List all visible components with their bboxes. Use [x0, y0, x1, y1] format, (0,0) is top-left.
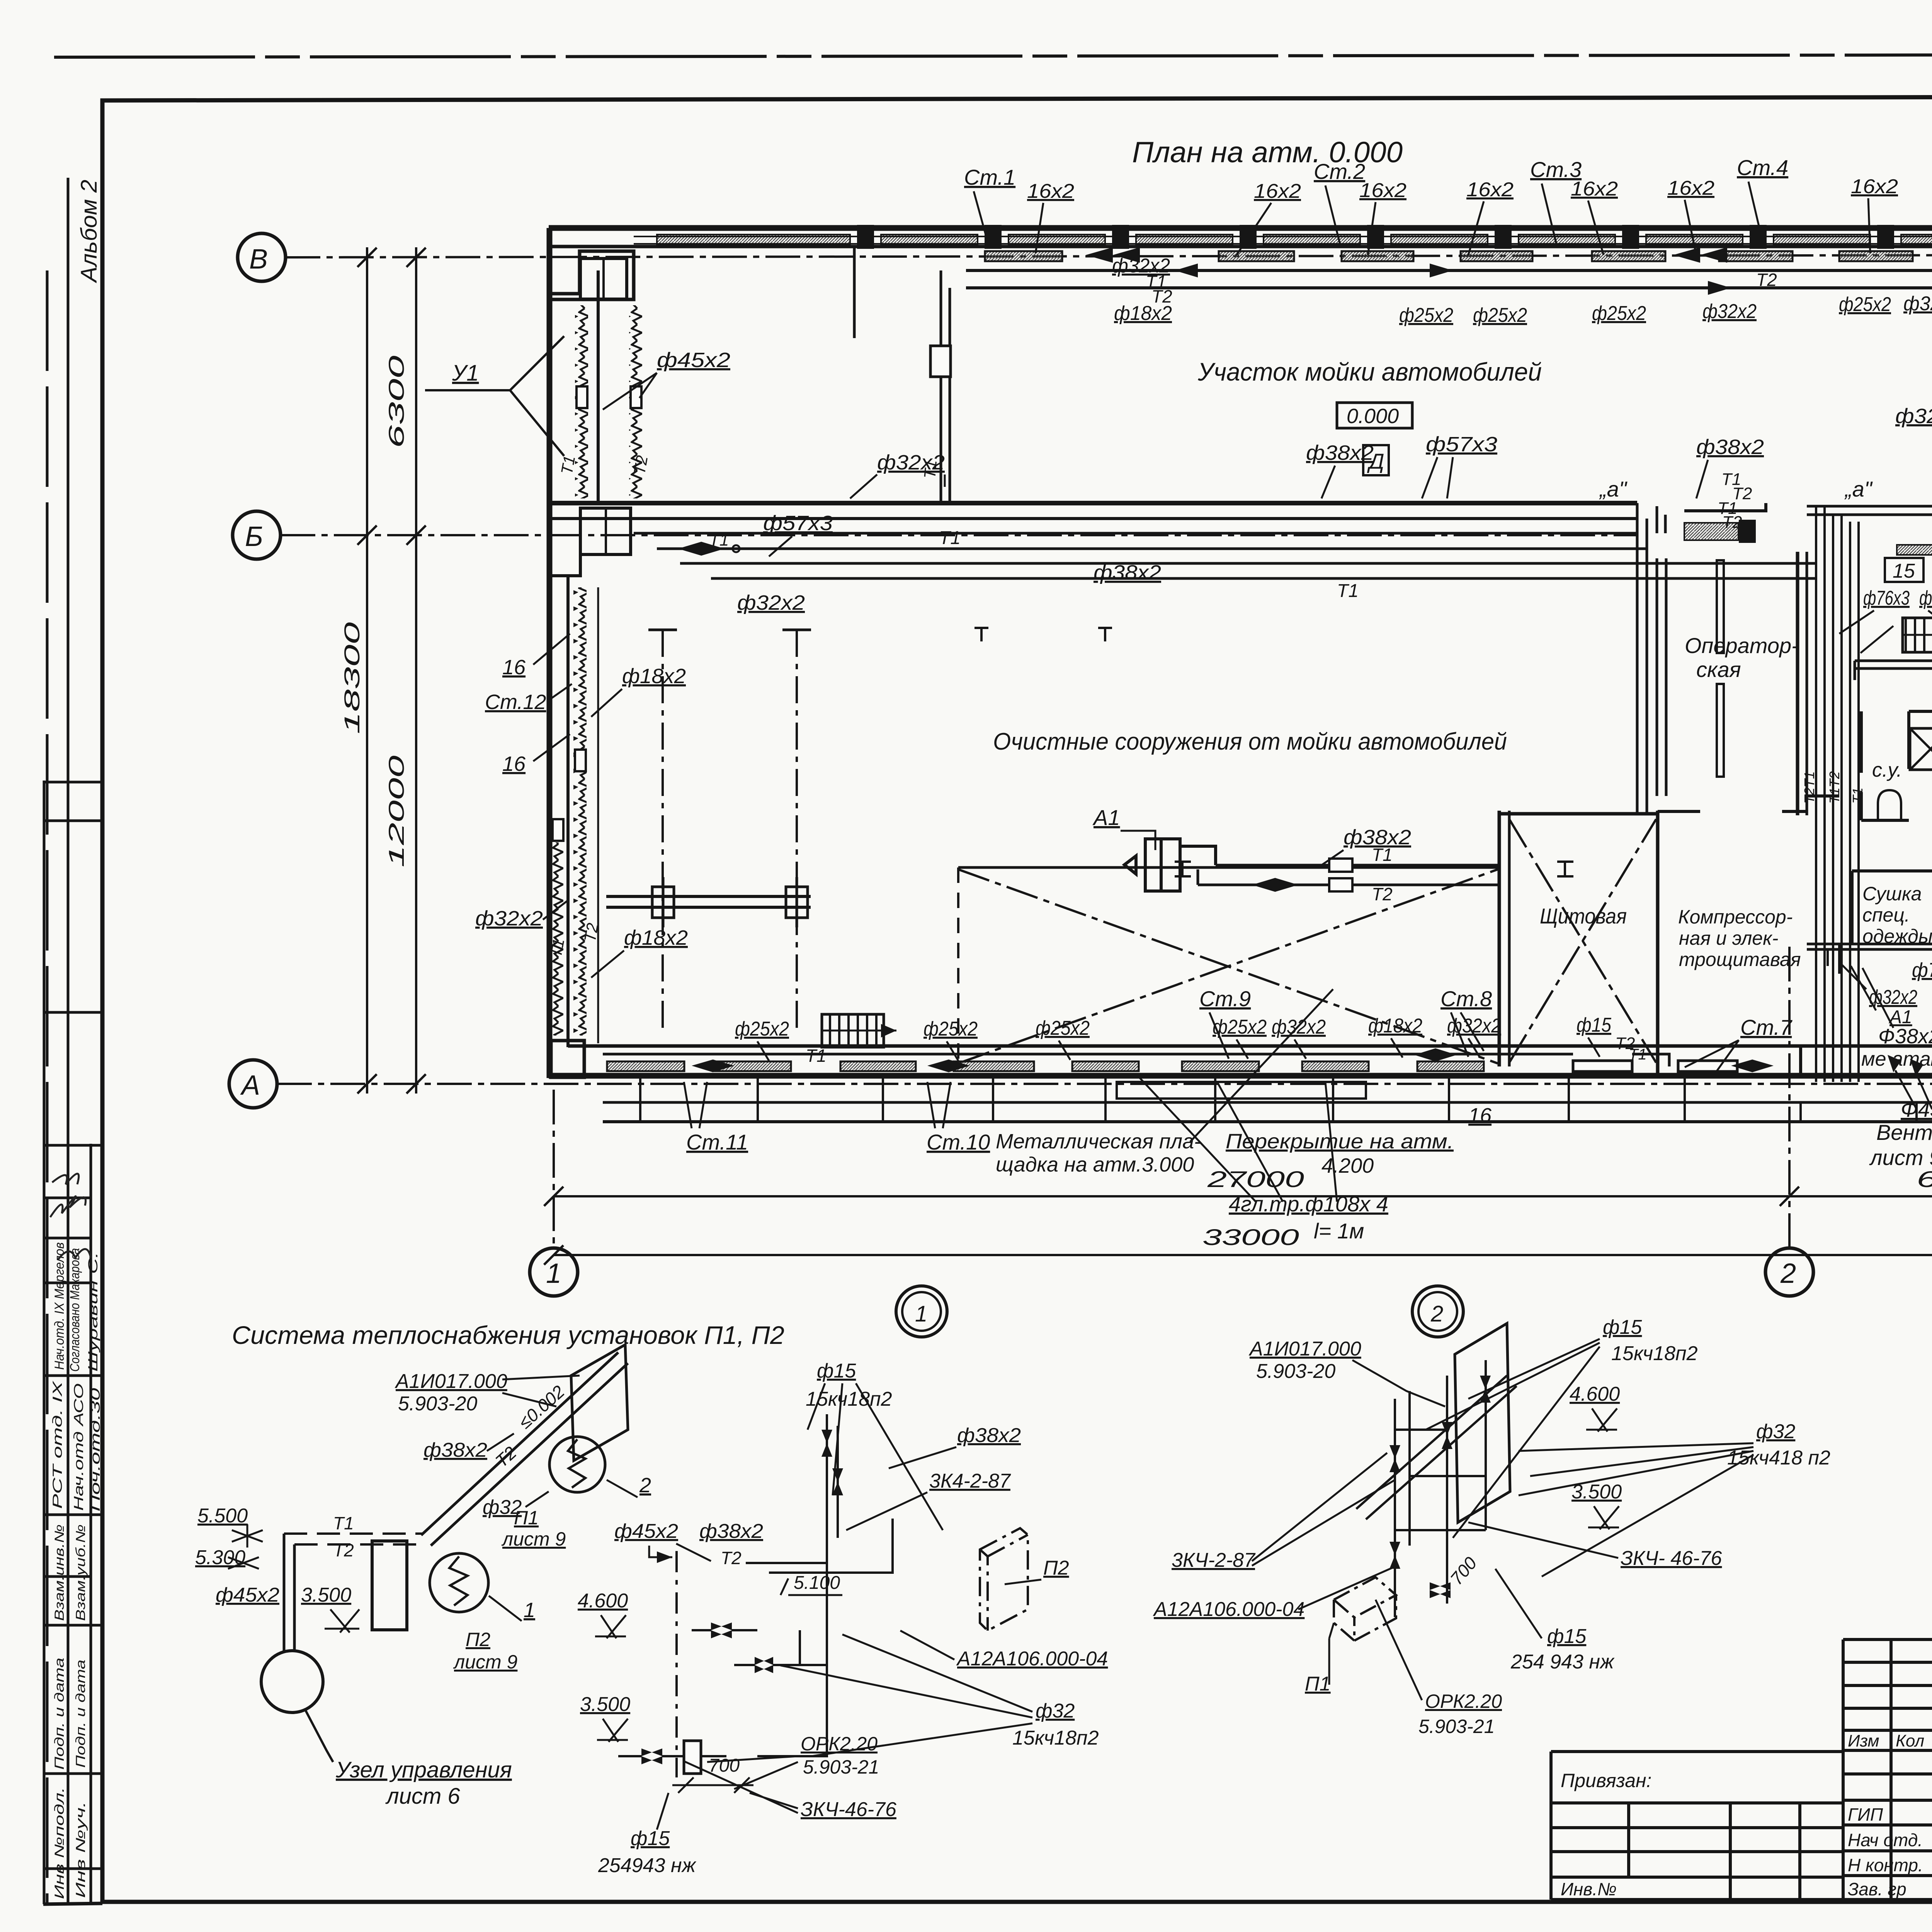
svg-text:Т1: Т1	[1629, 1046, 1647, 1063]
svg-text:спец.: спец.	[1862, 904, 1910, 926]
svg-text:Т1: Т1	[558, 454, 579, 476]
small flange rects on chains	[577, 386, 641, 408]
Сушка room walls	[1852, 871, 1932, 944]
svg-text:Оператор-: Оператор-	[1685, 633, 1799, 658]
bottom trench line 1	[603, 1101, 1932, 1104]
outer sheet left edge line	[46, 270, 49, 1905]
svg-text:Ст.8: Ст.8	[1440, 986, 1492, 1011]
platform top edge line	[958, 866, 1498, 869]
left wall outer	[547, 228, 553, 1078]
svg-text:У1: У1	[452, 361, 479, 386]
svg-text:ф25х2: ф25х2	[1036, 1017, 1090, 1039]
svg-text:ф32х2: ф32х2	[1895, 405, 1932, 428]
svg-text:1: 1	[546, 1258, 561, 1289]
П2 riser circle with zigzag	[430, 1553, 488, 1612]
svg-text:Т1: Т1	[939, 528, 961, 548]
svg-text:15кч18п2: 15кч18п2	[1611, 1342, 1698, 1365]
trench verticals	[640, 1078, 1932, 1122]
svg-text:Ст.4: Ст.4	[1737, 155, 1788, 180]
svg-text:16х2: 16х2	[1667, 177, 1714, 199]
Узел управления leader + text	[305, 1710, 333, 1762]
svg-text:ф18х2: ф18х2	[1368, 1015, 1422, 1037]
svg-text:ная и элек-: ная и элек-	[1679, 927, 1778, 949]
grid circle А	[229, 1060, 277, 1108]
thin partition stub top-left hall	[853, 247, 856, 338]
svg-text:ме атапления: ме атапления	[1861, 1048, 1932, 1070]
svg-text:3КЧ-2-87: 3КЧ-2-87	[1172, 1549, 1256, 1571]
left margin label column	[44, 178, 102, 1904]
svg-text:П2: П2	[466, 1629, 490, 1650]
svg-text:2: 2	[1780, 1258, 1796, 1289]
connect middle riser down to valve row	[757, 1646, 827, 1756]
bottom wall inner	[568, 1044, 1932, 1048]
valves on mid riser	[711, 1622, 773, 1673]
svg-text:4.600: 4.600	[578, 1590, 628, 1612]
grid circle 2	[1765, 1248, 1813, 1296]
У1 lower boxes at Б wall	[580, 508, 631, 554]
svg-text:ф32: ф32	[1756, 1420, 1795, 1443]
title area outer	[1843, 1639, 1932, 1900]
svg-text:Нач.отд. IX Мергелов: Нач.отд. IX Мергелов	[52, 1242, 67, 1370]
svg-text:Т2: Т2	[630, 454, 651, 476]
svg-text:ф76х3: ф76х3	[1863, 587, 1910, 609]
Т1 riser mid (x2435)	[941, 270, 950, 503]
horizontal ties	[1395, 1430, 1486, 1530]
svg-text:ГИП: ГИП	[1848, 1804, 1883, 1825]
axis В horizontal	[286, 255, 1932, 257]
pipe arrowheads top run	[1175, 264, 1932, 295]
svg-text:Ст.7: Ст.7	[1740, 1015, 1793, 1039]
svg-text:16: 16	[1468, 1104, 1492, 1127]
axis 2 vertical extension	[1788, 947, 1791, 1247]
svg-text:Нач отд.: Нач отд.	[1848, 1830, 1923, 1850]
svg-text:ф32х2: ф32х2	[1869, 986, 1917, 1009]
svg-text:ф45х2: ф45х2	[614, 1520, 678, 1543]
svg-text:Т2: Т2	[333, 1540, 354, 1560]
Т2 pipe across ИТП	[1807, 944, 1932, 949]
svg-text:ф15: ф15	[1577, 1014, 1612, 1036]
valve + couplings on А1 pipes	[1252, 878, 1298, 892]
Ст.5 and 15 labels	[1897, 545, 1932, 555]
view circle 2 (double ring)	[1412, 1286, 1463, 1337]
svg-text:П1: П1	[514, 1507, 539, 1529]
Т1 Т2 pipes from А1	[1198, 865, 1498, 885]
svg-text:Ст.12: Ст.12	[485, 690, 546, 714]
svg-text:ф25х2: ф25х2	[1839, 293, 1891, 316]
svg-text:3.500: 3.500	[1571, 1481, 1622, 1503]
svg-text:ф38х2: ф38х2	[1344, 826, 1411, 849]
svg-text:Т1: Т1	[806, 1046, 827, 1066]
second label row under top wall	[1112, 255, 1932, 327]
bottom trench line 2	[603, 1120, 1932, 1123]
axis 1 vertical extension	[553, 1090, 555, 1247]
axis Б horizontal	[281, 534, 1638, 536]
svg-text:Т2: Т2	[1722, 513, 1742, 532]
svg-text:Подп. и дата: Подп. и дата	[52, 1658, 67, 1770]
svg-text:ф32х2: ф32х2	[1447, 1015, 1501, 1037]
svg-text:Инв №подл.: Инв №подл.	[52, 1787, 67, 1899]
monorail dash-dot verticals	[663, 630, 797, 1028]
vertical pipe mid	[675, 1551, 678, 1777]
small table rows	[1843, 1662, 1932, 1876]
svg-text:Т2: Т2	[721, 1548, 742, 1568]
svg-text:щадка на атм.3.000: щадка на атм.3.000	[996, 1153, 1194, 1176]
привязан box	[1551, 1752, 1843, 1900]
svg-text:ф25х2: ф25х2	[1213, 1016, 1267, 1038]
svg-text:Д: Д	[1367, 449, 1384, 473]
У1 assembly (top-left air unit)	[549, 251, 634, 576]
svg-text:трощитавая: трощитавая	[1679, 949, 1801, 970]
svg-text:5.903-20: 5.903-20	[398, 1393, 477, 1415]
П1 riser circle with zigzag	[549, 1437, 605, 1492]
rising diagonal pipes	[421, 1352, 628, 1546]
svg-text:Сушка: Сушка	[1862, 883, 1922, 905]
bottom-left corner pillar	[551, 1041, 584, 1077]
svg-text:2: 2	[1430, 1301, 1443, 1327]
monorail end caps	[648, 629, 811, 631]
svg-text:ф45х2: ф45х2	[216, 1584, 279, 1606]
riser with valves	[827, 1414, 838, 1646]
риser bundle verticals	[1816, 506, 1859, 1082]
svg-text:l= 1м: l= 1м	[1314, 1219, 1364, 1243]
svg-text:Нач.отд АСО: Нач.отд АСО	[71, 1383, 86, 1511]
valve on Б pipe	[678, 542, 740, 556]
Т1 Т2 dashed pipes	[284, 1534, 423, 1544]
toilet fixture	[1878, 790, 1901, 820]
tee marks on platform edge	[1175, 862, 1573, 876]
svg-text:Взам.уиб.№: Взам.уиб.№	[73, 1524, 88, 1621]
У1 zigzag convector chains	[575, 305, 588, 498]
Т2 horizontal to П2 box	[746, 1519, 893, 1573]
svg-text:Привязан:: Привязан:	[1561, 1770, 1651, 1791]
svg-text:А1: А1	[1092, 805, 1120, 830]
svg-text:Шуравин С.: Шуравин С.	[86, 1252, 100, 1372]
svg-text:„а": „а"	[1599, 477, 1628, 501]
svg-text:ф38х2: ф38х2	[957, 1424, 1021, 1447]
top Т1 pipe line	[966, 269, 1932, 272]
svg-text:700: 700	[709, 1755, 740, 1776]
small tee marks mid plan	[975, 628, 1112, 641]
svg-text:с.у.: с.у.	[1872, 759, 1902, 781]
vertical pipe to узел	[284, 1534, 294, 1651]
svg-text:15: 15	[1893, 560, 1915, 582]
П2 parallelepiped dash-dot	[980, 1528, 1028, 1631]
svg-text:Зав. гр: Зав. гр	[1848, 1879, 1906, 1899]
svg-text:Ф38х2: Ф38х2	[1878, 1025, 1932, 1048]
svg-text:А1И017.000: А1И017.000	[1248, 1338, 1361, 1360]
svg-text:Щитовая: Щитовая	[1540, 904, 1627, 928]
svg-text:ф32х2: ф32х2	[1903, 293, 1932, 315]
svg-text:16х2: 16х2	[1254, 180, 1301, 202]
axis Б wall bottom line	[549, 517, 1637, 520]
parallelogram plate	[571, 1345, 628, 1461]
svg-text:16х2: 16х2	[1571, 178, 1618, 200]
tank rectangle	[372, 1541, 407, 1630]
svg-text:12000: 12000	[384, 755, 408, 867]
big hall X dash-dot (metal platform)	[958, 869, 1498, 1063]
svg-text:16х2: 16х2	[1851, 175, 1898, 198]
left wall inner	[597, 270, 600, 502]
small table outer	[1843, 1639, 1932, 1900]
top radiator hatched convectors	[985, 251, 1932, 261]
grid circle В	[238, 233, 286, 281]
svg-text:15кч418 п2: 15кч418 п2	[1727, 1447, 1830, 1469]
svg-text:Т2: Т2	[1151, 286, 1172, 306]
svg-text:5.903-21: 5.903-21	[803, 1756, 879, 1778]
svg-text:ф32х2: ф32х2	[877, 451, 945, 474]
svg-text:Б: Б	[245, 521, 263, 552]
Операторская radiator strips	[1717, 560, 1724, 777]
svg-text:Взам.инв.№: Взам.инв.№	[52, 1524, 67, 1621]
svg-text:4гл.тр.ф108х 4: 4гл.тр.ф108х 4	[1229, 1192, 1388, 1216]
svg-text:5.500: 5.500	[197, 1505, 248, 1527]
svg-text:Т1: Т1	[709, 531, 729, 549]
svg-text:Т1: Т1	[1337, 581, 1359, 601]
bottom Т1 pipe	[603, 1053, 1573, 1056]
top Т2 pipe line	[966, 286, 1932, 289]
svg-text:Т2: Т2	[1372, 884, 1393, 904]
svg-text:Очистные сооружения от мойк: Очистные сооружения от мойки автомобилей	[993, 728, 1507, 755]
small table columns	[1891, 1639, 1932, 1900]
svg-text:Система теплоснабжения уст: Система теплоснабжения установок П1, П2	[232, 1321, 784, 1349]
svg-text:Поч.отд.30: Поч.отд.30	[88, 1388, 103, 1512]
svg-text:ЗКЧ-46-76: ЗКЧ-46-76	[801, 1798, 896, 1821]
stair leader line	[1861, 626, 1893, 653]
svg-text:ф32х2: ф32х2	[1919, 587, 1932, 609]
svg-text:Металлическая пла-: Металлическая пла-	[996, 1130, 1201, 1153]
bottom plain radiators (Ст.7 zone)	[1573, 1061, 1737, 1071]
svg-text:Альбом 2: Альбом 2	[77, 180, 102, 283]
svg-text:ф25х2: ф25х2	[735, 1018, 789, 1040]
top wall inner line	[549, 245, 1932, 248]
svg-text:Т2Т1: Т2Т1	[1801, 771, 1817, 804]
svg-text:лист 9: лист 9	[453, 1651, 517, 1673]
svg-text:3К4-2-87: 3К4-2-87	[929, 1470, 1011, 1492]
svg-text:1: 1	[524, 1599, 535, 1622]
margin signature scribbles	[50, 1174, 91, 1260]
grid circle 1	[530, 1248, 578, 1296]
Операторская room corner pipes (turn down)	[1637, 503, 1666, 815]
svg-text:ф45х2: ф45х2	[657, 349, 730, 372]
svg-text:ф25х2: ф25х2	[1592, 302, 1646, 325]
svg-text:ф18х2: ф18х2	[622, 665, 686, 688]
svg-text:16: 16	[502, 752, 526, 776]
svg-text:18300: 18300	[340, 622, 364, 734]
svg-text:лист 9: лист 9	[1869, 1145, 1932, 1170]
left wall lower zigzag convectors	[573, 587, 587, 1036]
svg-text:6300: 6300	[384, 355, 408, 448]
svg-text:ф15: ф15	[817, 1360, 856, 1382]
svg-text:ф38х2: ф38х2	[423, 1439, 487, 1461]
svg-text:А12А106.000-04: А12А106.000-04	[1153, 1598, 1304, 1621]
svg-text:16х2: 16х2	[1359, 179, 1406, 202]
svg-text:ОРК2.20: ОРК2.20	[1425, 1690, 1502, 1712]
plate parallelogram	[1455, 1323, 1510, 1522]
svg-text:Узел управления: Узел управления	[335, 1757, 512, 1782]
svg-text:16х2: 16х2	[1466, 179, 1514, 201]
svg-text:Ст.1: Ст.1	[964, 165, 1015, 189]
svg-text:ская: ская	[1696, 657, 1741, 682]
svg-text:Инв.№: Инв.№	[1561, 1879, 1617, 1899]
Щитовая X dash-dot	[1509, 819, 1656, 1063]
top wall window hatch strips	[657, 235, 1932, 244]
view circle 1 (double ring)	[896, 1286, 947, 1337]
Операторская right wall	[1798, 552, 1807, 815]
svg-text:ф38х2: ф38х2	[699, 1520, 763, 1543]
svg-text:ф18х2: ф18х2	[624, 926, 688, 949]
Б window strip and stub	[1684, 523, 1738, 540]
bottom radiator hatched convectors	[607, 1061, 1484, 1071]
svg-text:Участок мойки автомобилей: Участок мойки автомобилей	[1197, 357, 1542, 386]
axis А horizontal	[277, 1083, 1932, 1085]
ИТП bottom-right pipes drop	[1816, 944, 1839, 974]
svg-text:ф57х3: ф57х3	[1426, 433, 1497, 456]
top window sill lines	[634, 236, 1932, 244]
svg-text:А12А106.000-04: А12А106.000-04	[956, 1648, 1108, 1670]
svg-text:Подп. и дата: Подп. и дата	[73, 1660, 88, 1768]
Д boxed	[1363, 445, 1389, 475]
svg-text:ф32х2: ф32х2	[737, 591, 805, 614]
svg-text:Ст.10: Ст.10	[927, 1130, 990, 1154]
svg-text:В: В	[249, 244, 268, 275]
svg-text:„а": „а"	[1844, 477, 1873, 501]
title block header texts	[1848, 1731, 1932, 1750]
svg-text:ф76х3: ф76х3	[1912, 959, 1932, 981]
svg-text:лист 9: лист 9	[501, 1528, 566, 1550]
svg-text:4.600: 4.600	[1570, 1383, 1620, 1405]
bottom-left stairs	[822, 1014, 884, 1047]
svg-text:2: 2	[639, 1474, 651, 1497]
svg-text:33000: 33000	[1202, 1225, 1299, 1250]
schematic 2 piping	[1356, 1360, 1517, 1617]
svg-text:1: 1	[915, 1301, 927, 1327]
valves schematic 2	[1389, 1376, 1491, 1598]
outer sheet top edge line	[54, 54, 1932, 57]
top-right stairs	[1903, 618, 1932, 652]
svg-text:0.000: 0.000	[1347, 405, 1399, 428]
svg-text:А1И017.000: А1И017.000	[395, 1370, 507, 1393]
svg-text:РСТ отд. IX: РСТ отд. IX	[50, 1381, 65, 1509]
svg-text:А: А	[240, 1070, 260, 1101]
svg-text:ф15: ф15	[631, 1827, 670, 1850]
grid circle Б	[233, 511, 281, 559]
slab edge rectangle below bottom wall	[1117, 1082, 1366, 1099]
svg-text:3.500: 3.500	[580, 1693, 630, 1716]
0.000 boxed level	[1337, 403, 1412, 428]
Венткамера bottom wall piece	[1801, 946, 1932, 1076]
hall left vertical thin line	[597, 587, 599, 1043]
svg-text:ф32х2: ф32х2	[1702, 300, 1757, 323]
riser flange	[930, 346, 951, 377]
platform beam	[606, 896, 811, 907]
top wall outer line	[549, 225, 1932, 231]
svg-text:Кол: Кол	[1896, 1731, 1924, 1750]
svg-text:ф15: ф15	[1547, 1625, 1587, 1648]
svg-text:Перекрытие на атм.: Перекрытие на атм.	[1226, 1130, 1454, 1153]
svg-text:Т1: Т1	[1850, 787, 1866, 804]
left vertical dimension line 18300	[357, 247, 426, 1094]
vertical risers	[1394, 1399, 1396, 1617]
svg-text:Н контр.: Н контр.	[1848, 1855, 1923, 1875]
svg-text:Ст.11: Ст.11	[686, 1130, 748, 1154]
svg-text:П2: П2	[1043, 1557, 1069, 1579]
svg-text:ф25х2: ф25х2	[1473, 304, 1527, 327]
svg-text:Компрессор-: Компрессор-	[1678, 906, 1793, 928]
svg-text:16: 16	[502, 656, 526, 679]
Щитовая room walls	[1499, 811, 1658, 1076]
bottom wall outer	[549, 1073, 1932, 1079]
column marks on beam	[652, 877, 808, 927]
svg-text:3.500: 3.500	[301, 1584, 351, 1606]
svg-text:5.903-20: 5.903-20	[1256, 1360, 1335, 1383]
svg-text:ЗКЧ- 46-76: ЗКЧ- 46-76	[1621, 1547, 1722, 1570]
svg-text:ф57х3: ф57х3	[763, 512, 833, 535]
А1 air unit assembly	[1124, 839, 1216, 891]
top wall column stubs	[857, 225, 1932, 249]
svg-text:Инв №уч.: Инв №уч.	[73, 1801, 88, 1898]
П1 isometric duct box	[1334, 1577, 1396, 1641]
svg-text:ф38х2: ф38х2	[1094, 561, 1161, 584]
svg-text:254 943 нж: 254 943 нж	[1510, 1651, 1615, 1673]
axis Б stepped pipe lines	[634, 533, 1665, 578]
svg-text:5.903-21: 5.903-21	[1418, 1716, 1495, 1737]
frame bottom extension to left columns	[43, 1903, 102, 1904]
svg-text:4.200: 4.200	[1321, 1154, 1374, 1177]
svg-text:Т1Т2: Т1Т2	[1827, 771, 1842, 804]
svg-text:ф25х2: ф25х2	[1399, 304, 1453, 327]
svg-text:Т1: Т1	[547, 937, 568, 959]
svg-text:6000: 6000	[1917, 1167, 1932, 1192]
svg-text:ф15: ф15	[1603, 1316, 1642, 1338]
bottom dimension line 27000 / 6000	[544, 1187, 1932, 1265]
bottom run bowties	[692, 1048, 1774, 1072]
С.У. shaft X box	[1910, 728, 1932, 770]
svg-text:Согласовано Макарова: Согласовано Макарова	[68, 1248, 82, 1372]
svg-text:П1: П1	[1305, 1673, 1331, 1695]
svg-text:ф38х2: ф38х2	[1696, 435, 1764, 459]
svg-text:Венткамера: Венткамера	[1876, 1120, 1932, 1145]
top pipes feeding risers	[1656, 506, 1932, 578]
svg-text:Т2: Т2	[1756, 270, 1777, 290]
svg-text:27000: 27000	[1207, 1167, 1304, 1192]
rotated margin texts (signature strip)	[50, 1242, 103, 1899]
svg-text:16х2: 16х2	[1027, 180, 1074, 202]
svg-text:15кч18п2: 15кч18п2	[1012, 1727, 1099, 1749]
grid axis lines (dash-dot)	[277, 255, 1932, 1321]
slanted supply pipes	[1356, 1376, 1517, 1519]
svg-text:Ст.9: Ст.9	[1199, 986, 1251, 1011]
axis Б wall top line	[549, 501, 1637, 505]
svg-text:Ст.2: Ст.2	[1314, 159, 1365, 184]
С.У. room walls	[1861, 711, 1932, 820]
svg-text:ф32х2: ф32х2	[475, 907, 543, 930]
svg-text:Т1: Т1	[333, 1513, 354, 1533]
radiator bowtie connectors top	[1086, 247, 1727, 263]
svg-text:5.100: 5.100	[794, 1573, 840, 1593]
узел управления circle	[261, 1651, 323, 1713]
svg-text:ф32: ф32	[1036, 1700, 1075, 1722]
bottom valve + ОРК	[641, 1748, 662, 1764]
partition under Операторская with door gaps	[1658, 796, 1932, 820]
svg-text:254943 нж: 254943 нж	[598, 1854, 697, 1877]
svg-text:Изм: Изм	[1848, 1731, 1879, 1750]
svg-text:ф25х2: ф25х2	[923, 1018, 978, 1040]
svg-text:лист 6: лист 6	[385, 1784, 460, 1809]
